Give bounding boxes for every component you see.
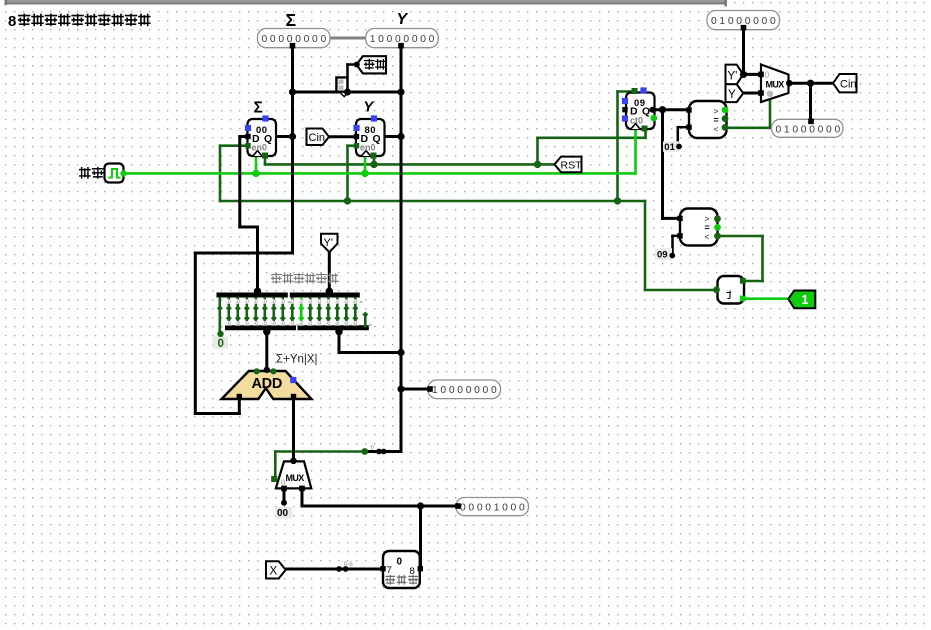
- svg-text:<: <: [714, 124, 719, 134]
- svg-text:01000000: 01000000: [776, 124, 843, 135]
- svg-text:-0: -0: [253, 321, 258, 327]
- svg-text:-0: -0: [326, 300, 331, 306]
- svg-text:Cin: Cin: [840, 79, 857, 91]
- svg-text:-0: -0: [326, 321, 331, 327]
- svg-text:Cin: Cin: [309, 132, 326, 144]
- svg-text:en0: en0: [360, 143, 376, 153]
- svg-text:00: 00: [277, 508, 289, 519]
- svg-text:-0: -0: [317, 300, 322, 306]
- svg-text:MUX: MUX: [286, 473, 305, 483]
- svg-text:8: 8: [8, 13, 16, 30]
- svg-text:Σ: Σ: [286, 10, 297, 30]
- svg-text:-0: -0: [335, 300, 340, 306]
- svg-text:Q: Q: [642, 106, 650, 118]
- svg-text:1: 1: [802, 293, 809, 307]
- svg-text:MUX: MUX: [766, 79, 785, 89]
- svg-text:-0: -0: [280, 300, 285, 306]
- svg-text:-0: -0: [244, 300, 249, 306]
- svg-text:-0: -0: [308, 321, 313, 327]
- svg-text:-0: -0: [262, 321, 267, 327]
- svg-text:0: 0: [765, 71, 770, 80]
- svg-text:ADD: ADD: [252, 376, 283, 392]
- svg-text:Y': Y': [728, 70, 738, 82]
- svg-text:X: X: [270, 565, 278, 577]
- svg-text:-0: -0: [299, 300, 304, 306]
- svg-text:-0: -0: [235, 300, 240, 306]
- svg-text:0: 0: [218, 338, 224, 350]
- svg-text:-0: -0: [235, 321, 240, 327]
- svg-text:-0: -0: [317, 321, 322, 327]
- svg-text:09: 09: [657, 249, 668, 260]
- svg-text:=: =: [288, 300, 291, 306]
- svg-text:-0: -0: [299, 321, 304, 327]
- svg-text:-0: -0: [280, 321, 285, 327]
- svg-text:RST: RST: [561, 160, 583, 172]
- svg-text:en0: en0: [252, 143, 268, 153]
- svg-text:-0: -0: [244, 321, 249, 327]
- svg-text:-0: -0: [271, 300, 276, 306]
- svg-text:10000000: 10000000: [432, 385, 499, 396]
- svg-text:-0: -0: [271, 321, 276, 327]
- svg-text:<: <: [705, 231, 710, 241]
- svg-text:Y: Y: [364, 100, 375, 116]
- svg-text:00001000: 00001000: [460, 503, 527, 514]
- svg-text:-0: -0: [344, 321, 349, 327]
- svg-text:-0: -0: [262, 300, 267, 306]
- svg-text:Σ: Σ: [254, 100, 263, 117]
- svg-text:7: 7: [387, 565, 392, 576]
- svg-text:-0: -0: [290, 321, 295, 327]
- svg-text:-0: -0: [253, 300, 258, 306]
- svg-text:-0: -0: [335, 321, 340, 327]
- svg-text:8: 8: [410, 566, 415, 577]
- svg-text:-0: -0: [308, 300, 313, 306]
- svg-text:-0: -0: [226, 321, 231, 327]
- svg-text:0: 0: [281, 478, 285, 487]
- svg-text:0: 0: [397, 557, 403, 568]
- svg-text:ct0: ct0: [630, 115, 643, 125]
- svg-text:Σ+Yn|X|: Σ+Yn|X|: [276, 354, 318, 366]
- svg-text:-0: -0: [353, 321, 358, 327]
- svg-text:=: =: [369, 323, 372, 329]
- svg-text:Y: Y: [397, 11, 409, 28]
- svg-text:-0: -0: [226, 300, 231, 306]
- svg-text:=: =: [360, 300, 363, 306]
- svg-text:0-6: 0-6: [344, 562, 353, 568]
- svg-text:-0: -0: [353, 300, 358, 306]
- svg-text:01: 01: [664, 142, 675, 153]
- svg-text:=: =: [296, 323, 299, 329]
- svg-text:-0: -0: [344, 300, 349, 306]
- svg-text:Y: Y: [728, 89, 736, 101]
- svg-text:Y': Y': [324, 237, 333, 249]
